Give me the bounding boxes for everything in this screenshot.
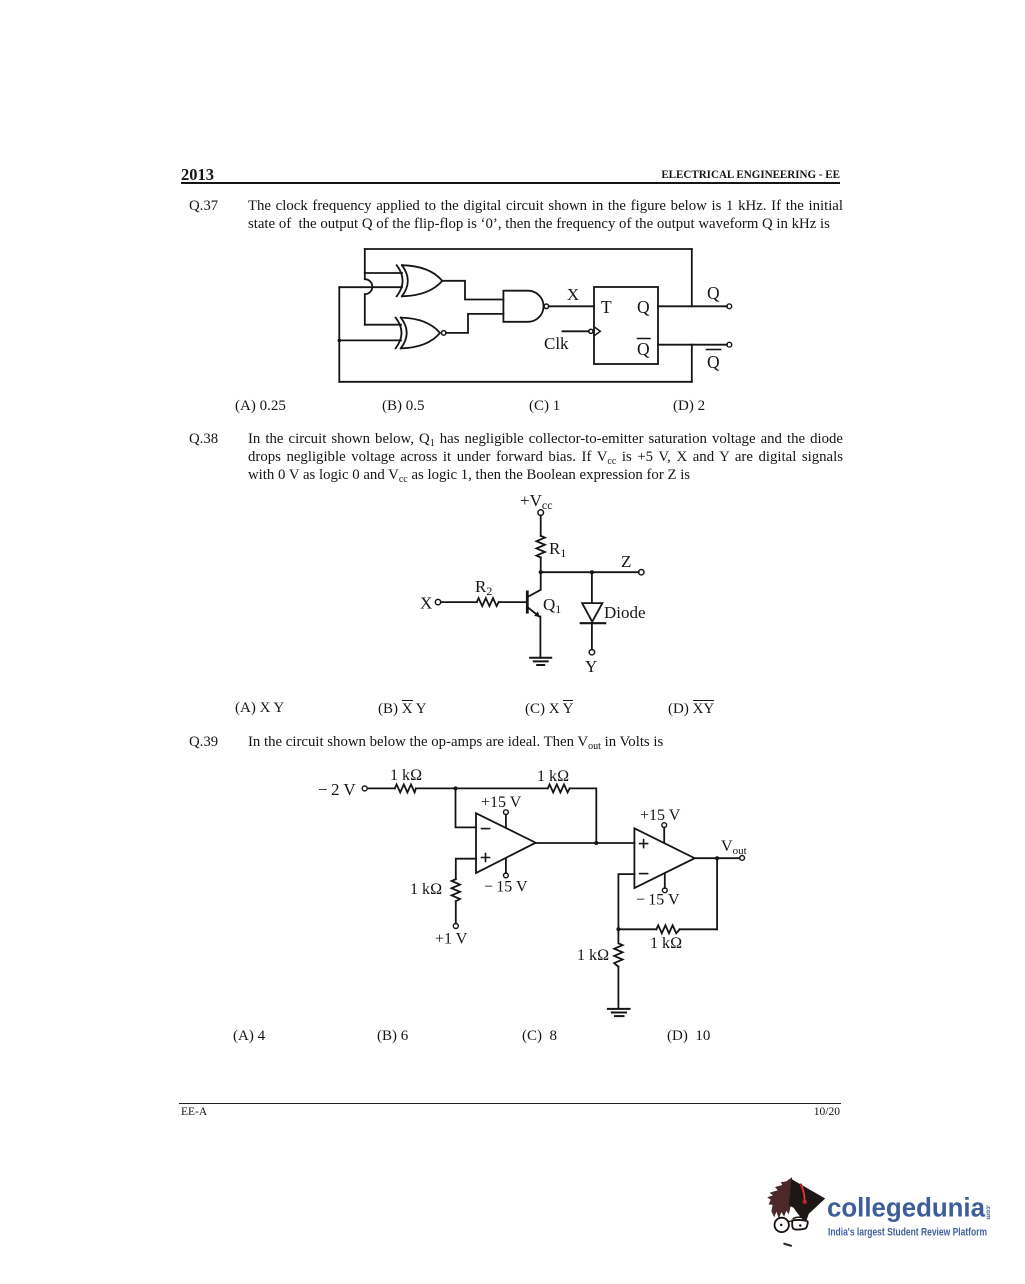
wire Vcc to R1 — [540, 516, 542, 536]
pin clock chevron — [594, 327, 600, 336]
logo mascot hair — [767, 1177, 792, 1219]
node junction left vertical — [338, 339, 342, 343]
svg-text:Vout: Vout — [721, 838, 747, 857]
resistor R3 — [395, 784, 416, 792]
Q38 answers — [235, 700, 284, 717]
wire R5 to +1V — [455, 901, 457, 923]
logo mascot eyebrow — [793, 1217, 801, 1218]
node Q terminal — [727, 304, 732, 309]
header rule — [181, 182, 840, 184]
wire left vertical — [338, 287, 340, 382]
diode D1 — [582, 603, 602, 622]
header year — [181, 165, 214, 185]
transistor Q1 emitter with arrow — [528, 607, 539, 616]
resistor R7 — [614, 943, 622, 966]
wire XOR lower input — [339, 286, 402, 288]
wire junction D to R7 — [617, 929, 619, 943]
svg-text:Q1: Q1 — [543, 595, 561, 616]
svg-text:X: X — [420, 594, 432, 613]
wire inverting input op2 — [618, 874, 634, 929]
logo mascot left pupil — [780, 1224, 783, 1227]
wire base — [441, 601, 526, 603]
svg-text:1 kΩ: 1 kΩ — [577, 947, 609, 964]
wire X (NAND output to flip-flop) — [549, 305, 594, 307]
node +15V terminal op1 — [504, 810, 509, 815]
svg-text:+15 V: +15 V — [481, 794, 522, 811]
transistor Q1 base bar — [526, 592, 529, 612]
wire Qbar output — [658, 344, 727, 346]
logo mascot bridge — [788, 1220, 792, 1223]
node -2V terminal — [362, 786, 367, 791]
footer right — [795, 1106, 840, 1118]
diode cathode bar — [581, 622, 606, 624]
node -15V terminal op1 — [504, 873, 509, 878]
svg-text:R2: R2 — [475, 577, 492, 598]
wire node to Z — [541, 571, 639, 573]
op-amp U1 minus sign — [482, 828, 490, 830]
wire diode to Y — [591, 624, 593, 649]
node +1V terminal — [453, 924, 458, 929]
node Qbar terminal — [727, 342, 732, 347]
wire noninverting input op1 — [456, 859, 476, 880]
logo mascot mouth — [784, 1244, 791, 1246]
wire op2 output to Vout — [695, 857, 740, 859]
op-amp U2 — [634, 828, 694, 888]
op-amp U2 minus sign — [640, 873, 648, 875]
node -15V terminal op2 — [662, 888, 667, 893]
footer left — [181, 1106, 207, 1118]
svg-text:Q: Q — [707, 283, 720, 303]
wire XNOR output to NAND — [446, 314, 503, 333]
wire +15V supply op2 — [663, 828, 665, 843]
svg-text:− 15 V: − 15 V — [484, 879, 528, 896]
Q37 number — [189, 197, 218, 215]
svg-text:1 kΩ: 1 kΩ — [410, 881, 442, 898]
logo mascot cap skull — [792, 1205, 809, 1223]
wire collector — [528, 572, 541, 597]
wire XOR1 output to NAND — [442, 281, 503, 300]
wire op1 output to op2 — [536, 842, 635, 844]
wire -2V to R3 — [367, 787, 394, 789]
svg-text:+Vcc: +Vcc — [520, 491, 553, 512]
logo mascot right pupil — [799, 1224, 802, 1227]
flip-flop T box — [594, 287, 658, 364]
header title — [560, 167, 841, 182]
resistor R5 — [452, 879, 460, 901]
svg-text:1 kΩ: 1 kΩ — [650, 935, 682, 952]
svg-text:Y: Y — [585, 657, 597, 676]
node collector junction — [539, 570, 543, 574]
ground — [530, 658, 551, 665]
wire XNOR upper input — [365, 324, 401, 326]
svg-text:+1 V: +1 V — [435, 931, 468, 948]
svg-text:− 15 V: − 15 V — [636, 892, 680, 909]
Q37 circuit — [330, 240, 740, 390]
svg-text:.com: .com — [985, 1205, 992, 1220]
Q38 circuit — [415, 490, 665, 685]
svg-text:Clk: Clk — [544, 334, 569, 353]
resistor R1 — [537, 536, 545, 558]
logo mascot tassel — [801, 1185, 805, 1202]
node Y terminal — [589, 650, 594, 655]
op-amp U2 plus sign — [640, 840, 648, 848]
svg-text:− 2 V: − 2 V — [318, 780, 356, 799]
svg-text:R1: R1 — [549, 539, 566, 560]
gate NAND U1 — [503, 291, 548, 322]
resistor R4 — [548, 784, 570, 792]
wire R1 to node — [540, 558, 542, 573]
Q39 text — [248, 733, 843, 751]
Q37 answers — [235, 398, 286, 415]
resistor R6 — [656, 925, 679, 933]
Q39 number — [189, 733, 218, 751]
logo collegedunia — [758, 1172, 998, 1262]
svg-text:India's largest Student Review: India's largest Student Review Platform — [828, 1227, 987, 1239]
node Clk bubble — [589, 329, 593, 333]
logo mascot left lens — [775, 1218, 789, 1232]
wire feedback down — [716, 858, 718, 929]
Q38 number — [189, 430, 218, 448]
wire +15V supply op1 — [505, 815, 507, 828]
wire Q output — [658, 305, 727, 307]
gate XNOR — [396, 318, 446, 349]
node diode junction — [590, 570, 594, 574]
svg-text:X: X — [567, 285, 579, 304]
wire bottom feedback — [339, 381, 692, 383]
Q39 answers — [233, 1028, 265, 1045]
svg-text:1 kΩ: 1 kΩ — [390, 767, 422, 784]
svg-text:T: T — [601, 297, 612, 317]
footer rule — [179, 1103, 841, 1104]
op-amp U1 — [476, 813, 536, 873]
svg-text:Z: Z — [621, 552, 631, 571]
Q39 circuit — [315, 760, 755, 1022]
node +15V terminal op2 — [662, 823, 667, 828]
node X terminal — [435, 599, 440, 604]
resistor R2 — [477, 598, 499, 606]
svg-text:1 kΩ: 1 kΩ — [537, 768, 569, 785]
node junction C — [715, 856, 719, 860]
wire top feedback — [365, 248, 692, 250]
svg-text:+15 V: +15 V — [640, 807, 681, 824]
wire R4 to op1 output — [570, 788, 597, 843]
svg-text:Diode: Diode — [604, 603, 646, 622]
svg-text:Q: Q — [637, 297, 650, 317]
logo mascot right lens — [792, 1220, 808, 1230]
wire feedback horizontal — [618, 928, 717, 930]
wire right vertical upper (Q feedback) — [691, 249, 693, 306]
wire XNOR lower input — [339, 339, 401, 341]
node Z terminal — [639, 570, 644, 575]
ground — [608, 1009, 630, 1016]
svg-text:Q: Q — [637, 339, 650, 359]
node junction D — [616, 927, 620, 931]
Q38 text — [248, 430, 843, 485]
wire vertical branch with hop — [365, 249, 373, 325]
wire R7 to ground — [617, 967, 619, 1009]
gate XOR1 — [397, 265, 443, 296]
wire Clk — [563, 330, 589, 332]
wire junction A to inverting input — [456, 788, 477, 827]
logo mascot cap board — [789, 1179, 825, 1214]
wire right vertical lower (Qbar feedback) — [691, 345, 693, 382]
wire -15V supply op1 — [505, 858, 507, 873]
node junction A — [454, 786, 458, 790]
logo mascot face — [775, 1210, 808, 1248]
Q37 text — [248, 197, 843, 233]
wire diode anode — [591, 572, 593, 603]
wire -15V supply op2 — [664, 873, 666, 888]
node Vout terminal — [740, 856, 745, 861]
wire XOR upper input — [365, 272, 402, 274]
op-amp U1 plus sign — [482, 854, 490, 862]
svg-text:collegedunia: collegedunia — [827, 1192, 986, 1222]
node junction B — [594, 841, 598, 845]
node Vcc terminal — [538, 510, 544, 516]
svg-text:Q: Q — [707, 352, 720, 372]
wire R3 to junction to R4 — [416, 787, 548, 789]
wire emitter to ground — [539, 617, 541, 658]
